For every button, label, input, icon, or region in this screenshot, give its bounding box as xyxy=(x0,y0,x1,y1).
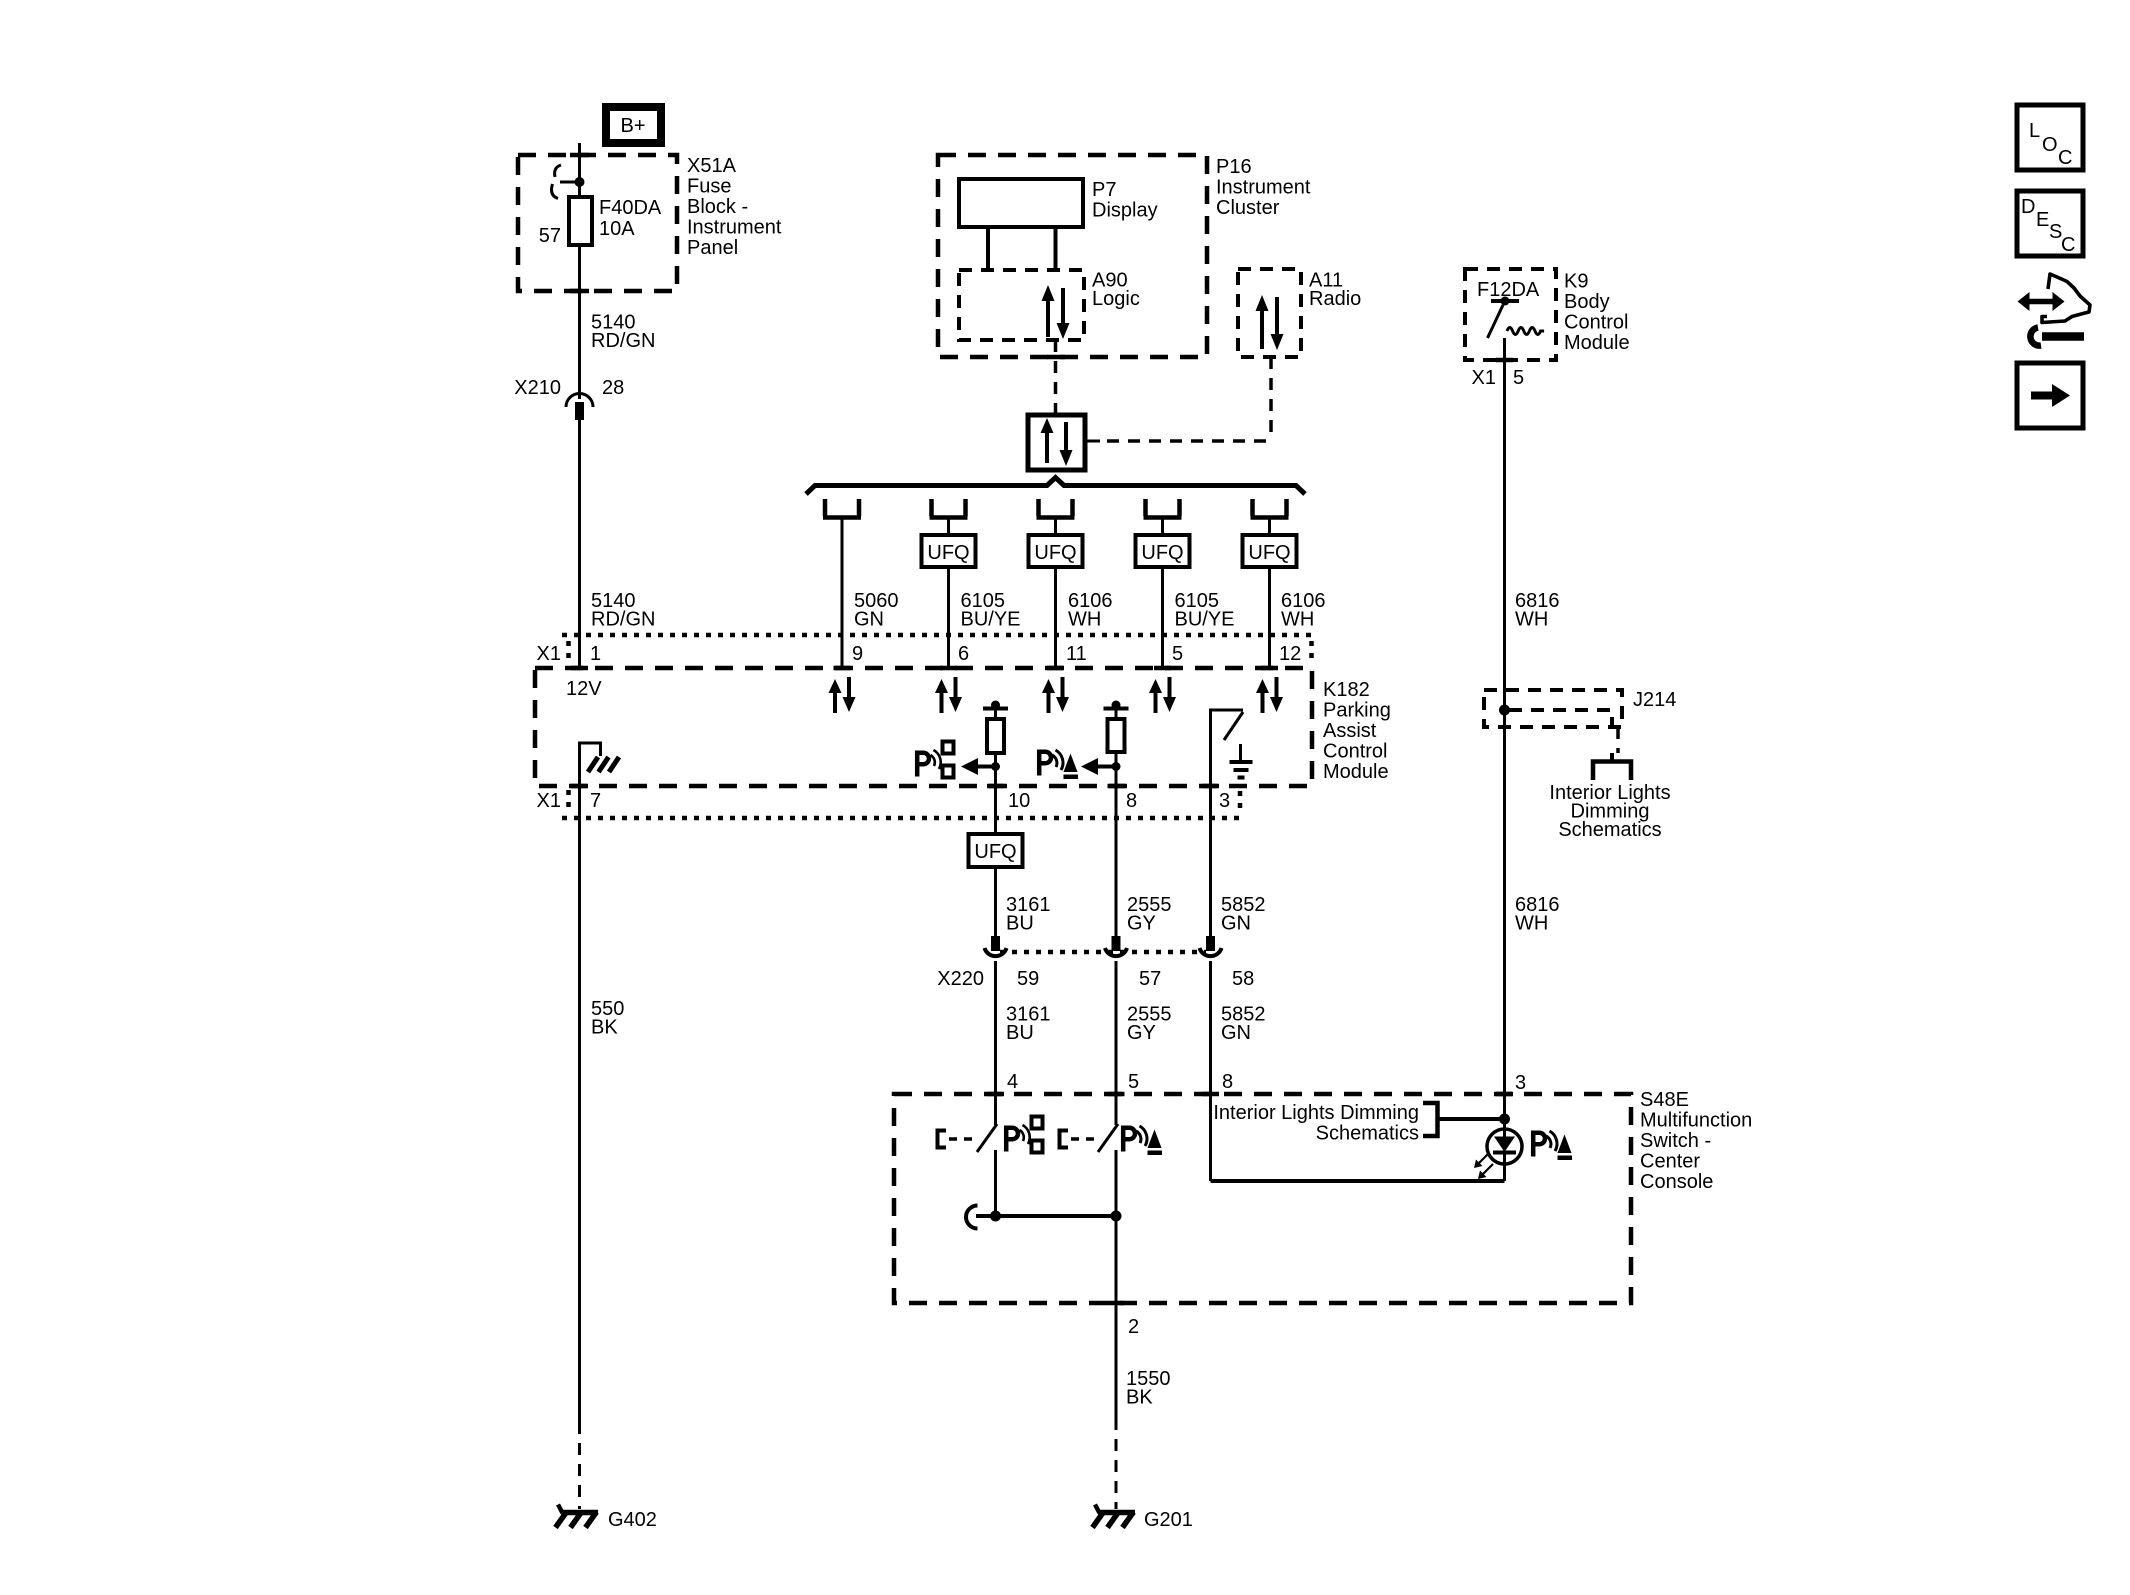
label X51A Fuse Block - Instrument Panel xyxy=(687,155,782,259)
border ticks K182 top edge wire entries xyxy=(571,666,1278,671)
K182 data arrows pin 6 xyxy=(935,677,962,713)
K182 data arrows pin 5 xyxy=(1149,677,1176,713)
label Interior Lights Dimming / Schematics (inside S48E) xyxy=(1213,1102,1419,1145)
svg-text:WH: WH xyxy=(1281,609,1314,631)
junction node switch 1 to bus xyxy=(990,1211,1001,1222)
connector X220 dotted line xyxy=(1000,950,1206,955)
wire X210 down to K182 pin 1 xyxy=(578,420,581,668)
svg-text:1: 1 xyxy=(590,643,601,665)
internal chassis ground (K182 pin 7) xyxy=(580,743,620,818)
svg-text:RD/GN: RD/GN xyxy=(591,330,655,352)
icon parking sensor front (S48E switch 1) xyxy=(1006,1117,1042,1153)
junction node pin 10 arrow xyxy=(991,762,1000,771)
svg-text:E: E xyxy=(2036,209,2049,231)
twisted pair drop 1 (pin 9) xyxy=(823,499,861,668)
wire K9 output down xyxy=(1503,338,1506,1094)
junction node switch 2 to bus xyxy=(1111,1211,1122,1222)
wire pin 2 down inside box xyxy=(1115,1216,1118,1418)
wire resistor to pin 8 xyxy=(1115,752,1118,937)
wire pin 3 to LED xyxy=(1503,1094,1506,1137)
wire display leg left xyxy=(986,227,990,270)
svg-text:UFQ: UFQ xyxy=(1141,542,1183,564)
svg-text:7: 7 xyxy=(590,790,601,812)
svg-text:UFQ: UFQ xyxy=(927,542,969,564)
svg-text:WH: WH xyxy=(1068,609,1101,631)
svg-text:8: 8 xyxy=(1222,1071,1233,1093)
svg-text:57: 57 xyxy=(1139,968,1161,990)
svg-text:B+: B+ xyxy=(620,115,645,137)
svg-text:J214: J214 xyxy=(1633,689,1676,711)
svg-text:Cluster: Cluster xyxy=(1216,197,1280,219)
connector X220 pin 58 xyxy=(1200,936,1222,956)
body control module K9 dashed box xyxy=(1465,269,1556,360)
connector X1 top row right separator xyxy=(1309,641,1314,664)
svg-text:Assist: Assist xyxy=(1323,720,1377,742)
junction node pin 8 arrow xyxy=(1112,762,1121,771)
switch 2 (rear sensors) blade xyxy=(1098,1124,1118,1152)
svg-text:59: 59 xyxy=(1017,968,1039,990)
hook terminal at common bus xyxy=(966,1206,978,1229)
UFQ shield box (pin 5 wire) xyxy=(1136,535,1190,567)
twisted pair drop 5 (pin 12) xyxy=(1251,499,1289,535)
svg-text:9: 9 xyxy=(852,643,863,665)
label A11 Radio xyxy=(1309,270,1361,311)
off-page bracket to dimming schematics xyxy=(1593,762,1631,781)
svg-text:28: 28 xyxy=(602,377,624,399)
svg-text:Multifunction: Multifunction xyxy=(1640,1110,1752,1132)
switch 1 (front sensors) blade xyxy=(977,1124,997,1152)
svg-text:Block -: Block - xyxy=(687,196,748,218)
svg-text:Interior Lights Dimming: Interior Lights Dimming xyxy=(1213,1102,1419,1124)
wire switch 1 lower leg xyxy=(994,1150,997,1216)
label A90 Logic xyxy=(1092,270,1140,311)
UFQ shield box (wire 3161) xyxy=(969,834,1023,867)
wire switch 2 lower leg xyxy=(1115,1150,1118,1216)
svg-text:UFQ: UFQ xyxy=(1248,542,1290,564)
svg-text:C: C xyxy=(2058,147,2072,169)
ground G402 xyxy=(556,1505,657,1532)
wire UFQ to pin 6 xyxy=(947,567,950,668)
svg-text:3: 3 xyxy=(1515,1072,1526,1094)
svg-text:5: 5 xyxy=(1128,1071,1139,1093)
border ticks S48E top edge xyxy=(987,1092,1513,1097)
wire X220-58 to S48E pin 8 xyxy=(1209,961,1212,1181)
border tick K9 bottom xyxy=(1496,358,1513,363)
icon parking sensor (LED) xyxy=(1533,1131,1572,1160)
svg-text:10A: 10A xyxy=(599,218,635,240)
svg-text:WH: WH xyxy=(1515,609,1548,631)
svg-text:Display: Display xyxy=(1092,200,1158,222)
twisted pair drop 4 (pin 5) xyxy=(1144,499,1182,535)
junction node on fuse feed xyxy=(575,177,585,187)
svg-text:Panel: Panel xyxy=(687,237,738,259)
serial data wire A11 branch (dashed) xyxy=(1099,357,1271,441)
svg-text:4: 4 xyxy=(1007,1071,1018,1093)
wire resistor to pin 10 xyxy=(994,753,997,834)
svg-text:Schematics: Schematics xyxy=(1558,819,1661,841)
connector X1 bottom row left separator xyxy=(566,790,571,813)
arrow to rear sensor icon xyxy=(1081,758,1116,775)
border tick fuse box bottom xyxy=(570,289,589,294)
connector X220 pin 59 xyxy=(985,936,1007,956)
connector X1 bottom row dotted line xyxy=(562,816,1240,821)
K182 output switch pin 3 xyxy=(1209,710,1243,818)
svg-text:10: 10 xyxy=(1008,790,1030,812)
border tick P16 bottom crossing xyxy=(1047,355,1065,360)
wire UFQ to pin 5 xyxy=(1161,567,1164,668)
border tick S48E bottom edge xyxy=(1107,1301,1124,1306)
LED return wire to pin 8 xyxy=(1211,1179,1505,1183)
svg-text:GN: GN xyxy=(1221,1022,1251,1044)
svg-text:Radio: Radio xyxy=(1309,288,1361,310)
junction node dimming/LED xyxy=(1499,1114,1510,1125)
K182 data arrows pin 11 xyxy=(1042,677,1069,713)
radio A11 dashed box xyxy=(1238,269,1301,357)
bus brace line xyxy=(806,478,1305,495)
fuse F40DA 10A xyxy=(569,197,592,245)
border ticks K182 bottom edge xyxy=(571,784,1219,789)
multifunction switch S48E dashed box xyxy=(894,1094,1631,1303)
icon parking sensor rear (S48E switch 2) xyxy=(1123,1126,1162,1155)
svg-text:RD/GN: RD/GN xyxy=(591,609,655,631)
label S48E Multifunction Switch - Center Console xyxy=(1640,1089,1752,1193)
svg-text:BK: BK xyxy=(1126,1387,1153,1409)
svg-text:Body: Body xyxy=(1564,291,1610,313)
svg-text:3: 3 xyxy=(1219,790,1230,812)
svg-text:6: 6 xyxy=(958,643,969,665)
display P7 box xyxy=(959,179,1083,227)
svg-text:K182: K182 xyxy=(1323,679,1370,701)
dashed branch from J214 xyxy=(1616,727,1620,753)
wire K182 pin 3 to X220 pin 58 xyxy=(1209,818,1212,940)
wire 550 BK from K182 pin 7 to G402 xyxy=(578,743,581,1422)
connector X210 inline connector symbol xyxy=(566,394,593,408)
svg-text:X1: X1 xyxy=(537,790,561,812)
vehicle diagnostics icon (car with arrow and wrench) xyxy=(2018,274,2091,346)
wire UFQ to pin 11 xyxy=(1054,567,1057,668)
svg-text:BU: BU xyxy=(1006,913,1034,935)
UFQ shield box (pin 6 wire) xyxy=(922,535,976,567)
wire X220-57 to S48E pin 5 xyxy=(1115,961,1118,1125)
svg-text:F40DA: F40DA xyxy=(599,197,662,219)
arrow to front sensor icon xyxy=(961,758,996,775)
svg-text:K9: K9 xyxy=(1564,271,1588,293)
icon parking sensor rear (P sonar triangle) xyxy=(1039,750,1078,779)
svg-text:X1: X1 xyxy=(1472,367,1496,389)
svg-text:GN: GN xyxy=(1221,913,1251,935)
svg-text:BU: BU xyxy=(1006,1022,1034,1044)
svg-text:X1: X1 xyxy=(537,643,561,665)
switch 1 button actuator E xyxy=(938,1131,975,1148)
wire X220-59 to S48E pin 4 xyxy=(994,961,997,1125)
svg-text:F12DA: F12DA xyxy=(1477,279,1540,301)
label P7 Display xyxy=(1092,179,1158,222)
svg-text:UFQ: UFQ xyxy=(974,841,1016,863)
serial data wire A90 to gateway box (dashed) xyxy=(1054,340,1058,415)
UFQ shield box (pin 11 wire) xyxy=(1029,535,1083,567)
svg-text:5: 5 xyxy=(1513,367,1524,389)
resistor (pin 8 driver) xyxy=(1108,719,1125,752)
common bus inside S48E xyxy=(976,1214,1116,1218)
dimming input bracket xyxy=(1423,1103,1505,1136)
svg-text:Parking: Parking xyxy=(1323,700,1391,722)
border tick fuse box top xyxy=(570,153,589,158)
wire UFQ to pin 12 xyxy=(1268,567,1271,668)
svg-text:Fuse: Fuse xyxy=(687,176,731,198)
label Interior Lights Dimming Schematics xyxy=(1549,782,1670,841)
svg-text:X210: X210 xyxy=(514,377,561,399)
dashed wire to G201 xyxy=(1115,1418,1118,1509)
svg-text:GY: GY xyxy=(1127,1022,1156,1044)
connector X1 top row left separator xyxy=(566,641,571,664)
wire B+ to fuse xyxy=(578,143,581,197)
UFQ shield box (pin 12 wire) xyxy=(1243,535,1297,567)
svg-text:5: 5 xyxy=(1172,643,1183,665)
splice pack J214 dashed boxes xyxy=(1484,690,1622,727)
junction node J214 xyxy=(1499,705,1510,716)
wire UFQ to X220 pin 59 xyxy=(994,867,997,940)
B+ battery terminal symbol xyxy=(606,107,661,143)
label K182 Parking Assist Control Module xyxy=(1323,679,1391,783)
svg-text:Control: Control xyxy=(1564,312,1628,334)
twisted pair drop 3 (pin 11) xyxy=(1037,499,1075,535)
LOC navigation button xyxy=(2017,105,2083,170)
svg-text:58: 58 xyxy=(1232,968,1254,990)
wire fuse to X210 xyxy=(578,245,581,399)
svg-text:BK: BK xyxy=(591,1017,618,1039)
svg-text:11: 11 xyxy=(1066,643,1087,665)
svg-text:GY: GY xyxy=(1127,913,1156,935)
svg-text:P7: P7 xyxy=(1092,179,1116,201)
svg-text:Center: Center xyxy=(1640,1151,1700,1173)
serial data gateway box with arrows xyxy=(1028,415,1085,470)
connector X1 top row dotted line xyxy=(562,633,1312,638)
K182 sensor driver pin 8: node and rail xyxy=(1104,701,1129,720)
LED indicator lamp xyxy=(1474,1129,1522,1181)
connector X220 pin 57 xyxy=(1105,936,1127,956)
instrument cluster P16 dashed box xyxy=(938,155,1207,357)
fuse block X51A dashed box xyxy=(518,155,677,291)
A11 data arrows xyxy=(1256,295,1284,350)
svg-text:C: C xyxy=(2061,234,2075,256)
svg-text:WH: WH xyxy=(1515,913,1548,935)
A90 data arrows xyxy=(1042,285,1070,339)
svg-text:G402: G402 xyxy=(608,1509,657,1531)
label K9 Body Control Module xyxy=(1564,271,1630,355)
svg-text:Control: Control xyxy=(1323,741,1387,763)
svg-text:Logic: Logic xyxy=(1092,288,1140,310)
svg-text:UFQ: UFQ xyxy=(1034,542,1076,564)
svg-text:X51A: X51A xyxy=(687,155,737,177)
next page button xyxy=(2017,363,2083,428)
svg-text:Module: Module xyxy=(1564,332,1630,354)
K182 parking assist control module dashed box xyxy=(535,668,1312,786)
svg-text:12V: 12V xyxy=(566,678,602,700)
wire display leg right xyxy=(1054,227,1058,270)
svg-text:Schematics: Schematics xyxy=(1316,1123,1419,1145)
fuse clip arcs xyxy=(555,165,561,177)
svg-text:L: L xyxy=(2029,120,2040,142)
ground G201 xyxy=(1093,1505,1193,1532)
K182 data arrows pin 12 xyxy=(1256,677,1283,713)
icon parking sensor front (P sonar squares) xyxy=(917,742,953,778)
svg-text:2: 2 xyxy=(1128,1316,1139,1338)
svg-text:S48E: S48E xyxy=(1640,1089,1689,1111)
svg-text:BU/YE: BU/YE xyxy=(1175,609,1235,631)
svg-text:X220: X220 xyxy=(937,968,984,990)
svg-text:BU/YE: BU/YE xyxy=(961,609,1021,631)
svg-text:GN: GN xyxy=(854,609,884,631)
twisted pair drop 2 (pin 6) xyxy=(930,499,968,535)
svg-text:D: D xyxy=(2021,196,2035,218)
internal ground symbol (K182 pin 3 switch) xyxy=(1230,744,1253,778)
K9 high-side driver symbol xyxy=(1488,297,1545,339)
svg-text:O: O xyxy=(2042,134,2058,156)
logic module A90 dashed box xyxy=(959,270,1084,340)
svg-text:G201: G201 xyxy=(1144,1509,1193,1531)
K182 data arrows pin 9 xyxy=(829,677,856,713)
svg-text:Instrument: Instrument xyxy=(1216,177,1311,199)
svg-text:Console: Console xyxy=(1640,1171,1713,1193)
svg-text:12: 12 xyxy=(1279,643,1301,665)
DESC navigation button xyxy=(2017,191,2083,256)
svg-text:Instrument: Instrument xyxy=(687,217,782,239)
svg-text:Module: Module xyxy=(1323,761,1389,783)
label P16 Instrument Cluster xyxy=(1216,156,1311,219)
K182 sensor driver pin 10: node and rail xyxy=(983,701,1008,720)
switch 2 button actuator E xyxy=(1060,1131,1097,1148)
resistor (pin 10 driver) xyxy=(987,719,1004,753)
connector X1 bottom row right separator xyxy=(1238,791,1243,814)
svg-text:8: 8 xyxy=(1126,790,1137,812)
svg-text:Switch -: Switch - xyxy=(1640,1130,1711,1152)
svg-text:57: 57 xyxy=(539,225,561,247)
svg-text:P16: P16 xyxy=(1216,156,1252,178)
